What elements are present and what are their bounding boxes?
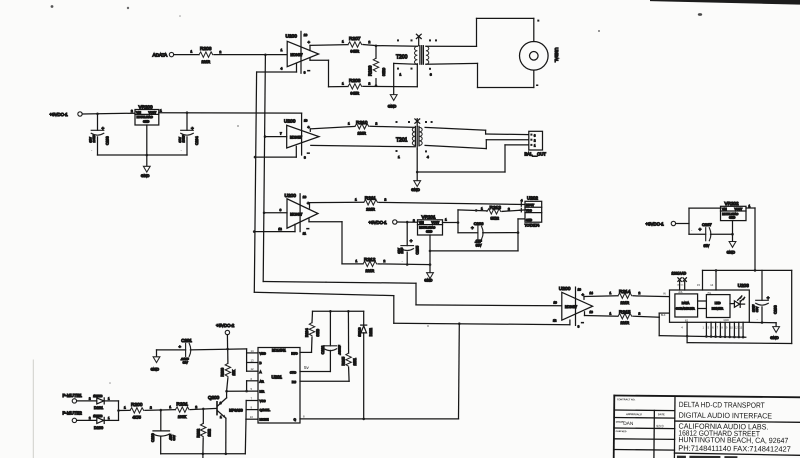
wire data bus to U200D input (wire A) [263, 282, 562, 306]
ic U201 MC14541 [258, 348, 300, 424]
wire scrambler to driver [698, 300, 707, 302]
svg-text:U200: U200 [285, 193, 297, 199]
svg-text:+: + [102, 126, 105, 131]
svg-text:P-MUTE1: P-MUTE1 [63, 393, 83, 398]
svg-text:GND: GND [727, 251, 736, 255]
ic DATA SCRAMBLER sub-block [675, 294, 698, 317]
wire VR201 gnd stub down [429, 235, 431, 273]
diode D202 1N4148 (vertical) [357, 311, 372, 419]
svg-text:R200: R200 [131, 402, 143, 408]
wire C206 gnd node to U202 gnd [517, 219, 519, 233]
wire U203 bottom pins [706, 322, 743, 337]
wire T200 secondary top to UNBAL [426, 18, 534, 46]
svg-text:DATA: DATA [682, 301, 690, 305]
svg-text:D200: D200 [94, 426, 103, 430]
svg-text:MC14541: MC14541 [272, 349, 286, 353]
svg-text:C207: C207 [702, 222, 712, 227]
resistor R201 100K [169, 401, 197, 418]
capacitor C205 [397, 222, 420, 264]
svg-text:R211: R211 [365, 196, 376, 202]
svg-text:T201: T201 [396, 138, 408, 144]
svg-text:VR200: VR200 [139, 104, 153, 109]
svg-text:GND: GND [526, 218, 532, 222]
wire U200D -out to R215 [585, 312, 619, 316]
svg-text:GND: GND [141, 174, 150, 178]
wire R215 to U203 [633, 313, 670, 317]
resistor R200 4K75 [124, 402, 152, 420]
svg-text:12: 12 [251, 367, 255, 371]
wire U201 Q riser [458, 324, 461, 419]
svg-text:PH:7148411140 FAX:7148412427: PH:7148411140 FAX:7148412427 [678, 444, 791, 454]
svg-text:92c3: 92c3 [656, 424, 664, 428]
transistor pair marks above U203 [677, 278, 687, 290]
svg-text:12: 12 [553, 319, 557, 323]
svg-text:GND: GND [424, 278, 432, 282]
wire +8VDC-1 to VR202 [676, 208, 721, 234]
wire R203/collector to MR pin [227, 390, 258, 392]
svg-text:RTC: RTC [291, 351, 298, 355]
wire U200A -out to R208 [310, 58, 348, 87]
svg-text:R205: R205 [342, 357, 346, 366]
wire U203 gnd branch [749, 322, 776, 326]
svg-text:A: A [260, 370, 262, 374]
wire T200 secondary bottom to UNBAL [426, 63, 534, 87]
svg-text:345R: 345R [351, 92, 360, 96]
wire U201 timing top bus [313, 310, 364, 312]
svg-text:C204: C204 [195, 136, 199, 145]
capacitor C200 [151, 410, 176, 454]
wire U200A enable to bus [257, 63, 297, 72]
svg-text:13: 13 [590, 310, 594, 314]
wire U203 top rail [703, 270, 792, 290]
capacitor C204 [178, 113, 199, 155]
ic U203 outer box [670, 283, 750, 322]
node ADATA input terminal [153, 52, 174, 57]
wire U200B +out to R210 [310, 126, 355, 131]
svg-text:+8VDC-1: +8VDC-1 [646, 221, 665, 226]
svg-text:B: B [260, 361, 262, 365]
svg-text:35V: 35V [476, 243, 483, 247]
svg-text:DELTA HD-CD TRANSPORT: DELTA HD-CD TRANSPORT [679, 400, 765, 410]
svg-text:221R: 221R [366, 207, 375, 211]
resistor R204 80K6 (vertical) [300, 311, 320, 352]
wire bus to U200B input [265, 136, 287, 138]
svg-text:R203: R203 [221, 368, 225, 377]
svg-text:VR202: VR202 [725, 201, 739, 206]
op-amp U200 (driver B, MC3487) [280, 113, 319, 160]
node +8VDC-1 terminal (top right) [646, 221, 676, 226]
regulator VR201 MC78L05AC [413, 215, 447, 235]
svg-text:16D1C: 16D1C [677, 285, 684, 287]
ic LED DRIVER sub-block [706, 292, 730, 322]
svg-text:DIGITAL AUDIO INTERFACE: DIGITAL AUDIO INTERFACE [679, 411, 773, 421]
capacitor C208 [752, 270, 778, 322]
resistor R215 221R [610, 310, 641, 326]
wire VR200 gnd stub [146, 125, 148, 155]
wire enable bus vertical (left) [254, 72, 256, 292]
svg-text:UNBAL: UNBAL [554, 48, 559, 63]
svg-text:10UF: 10UF [182, 135, 186, 143]
led indicator [730, 296, 745, 307]
svg-text:GND: GND [724, 319, 730, 322]
node C203 tap [96, 113, 99, 116]
svg-text:+: + [191, 126, 194, 131]
resistor R212 221R [356, 257, 386, 273]
resistor R203 15K (vertical) [221, 349, 236, 391]
svg-text:Q200: Q200 [208, 395, 220, 400]
op-amp U200 (driver C, MC3487) [278, 193, 318, 235]
op-amp U200 (driver D, MC3487) [553, 286, 593, 328]
svg-text:GND: GND [143, 119, 149, 123]
ground under U203 [770, 327, 779, 340]
svg-text:1N4148: 1N4148 [93, 394, 103, 398]
connector UNBAL RCA jack [520, 20, 560, 87]
regulator VR200 MC78L05AC [131, 104, 162, 125]
svg-text:GND: GND [151, 367, 160, 371]
node +8VDC-1 terminal (channel 3) [369, 220, 397, 225]
svg-text:+8VDC-1: +8VDC-1 [369, 220, 388, 225]
diode D201 1N4148 [89, 394, 110, 410]
ground under VR202 [727, 242, 736, 255]
wire 5V to R213 [458, 210, 487, 211]
svg-text:APPROVALS: APPROVALS [625, 412, 642, 416]
wire gnd rail under VR200 [98, 154, 188, 156]
scanner edge streak top right [650, 0, 800, 5]
svg-text:16: 16 [304, 119, 308, 123]
node +5VDC-2 terminal [216, 323, 235, 349]
svg-text:221R: 221R [621, 301, 630, 305]
wire VR200 VOUT 5V rail to op-amp B vcc [159, 112, 302, 114]
wire Q200 emitter down [225, 418, 227, 454]
title block main text [678, 400, 791, 454]
svg-text:13: 13 [251, 358, 255, 362]
svg-text:10UF: 10UF [92, 135, 96, 143]
svg-text:LED: LED [715, 301, 722, 305]
wire R215 node to gnd bus [658, 317, 660, 335]
svg-text:15K: 15K [232, 369, 236, 376]
svg-text:MC3487: MC3487 [290, 135, 302, 139]
svg-text:U200: U200 [559, 286, 571, 292]
svg-text:DAN: DAN [623, 421, 634, 427]
wire VR201 vout node [443, 222, 459, 224]
wire R207 to T200 [363, 45, 376, 46]
wire ADATA to R206 [174, 54, 199, 56]
svg-text:10: 10 [554, 300, 558, 304]
cap polarity minus marks [91, 148, 759, 322]
svg-text:.033UF: .033UF [338, 345, 342, 355]
resistor R207 345R [342, 36, 371, 54]
svg-text:R214: R214 [619, 289, 631, 295]
capacitor C201 (inline) with gnd [157, 338, 247, 364]
svg-text:INPUT: INPUT [526, 203, 534, 207]
svg-text:+: + [471, 226, 474, 231]
svg-text:U200: U200 [286, 34, 298, 40]
ground under T200 [388, 95, 397, 109]
op-amp U200 (driver A, MC3487) [281, 31, 319, 74]
svg-text:VR201: VR201 [422, 215, 436, 220]
svg-text:5v: 5v [304, 365, 310, 370]
svg-text:SCRAMBLER: SCRAMBLER [676, 307, 696, 311]
svg-text:1UF: 1UF [400, 248, 404, 254]
svg-text:MC3487: MC3487 [565, 305, 577, 309]
svg-text:35V: 35V [755, 307, 759, 312]
svg-text:BLK: BLK [661, 314, 666, 317]
ground under VR200 [141, 155, 150, 178]
wire U201 vdd/b/a bracket [247, 349, 258, 371]
svg-text:+8VDC-1: +8VDC-1 [50, 112, 69, 117]
svg-text:+: + [767, 296, 770, 301]
resistor R205 22K1 (vertical) [300, 311, 357, 381]
capacitor C203 [89, 114, 110, 155]
svg-text:14: 14 [251, 349, 255, 353]
svg-text:IN: IN [663, 292, 666, 296]
node +8VDC-1 terminal [50, 112, 83, 117]
svg-text:MC3487: MC3487 [291, 53, 303, 57]
svg-text:ADATA: ADATA [153, 53, 169, 58]
svg-text:C208: C208 [773, 305, 777, 314]
node wire B / Q riser junction [458, 322, 461, 325]
wire R200 to R201 [145, 409, 175, 412]
wire U200C -out to R212 [309, 219, 363, 264]
wire enable bus to U200D (wire B) [254, 292, 570, 324]
svg-text:16: 16 [304, 33, 308, 37]
svg-text:P-MUTE2: P-MUTE2 [63, 410, 83, 415]
wire U200A +out to R207 [310, 45, 348, 51]
ground under T201 [411, 172, 420, 192]
ground under VR201 [424, 273, 433, 283]
svg-text:R207: R207 [349, 36, 361, 42]
svg-text:R215: R215 [619, 310, 631, 316]
title block bottom partial row [677, 456, 738, 458]
svg-text:GND: GND [411, 188, 420, 192]
wire U203 I/O stub [686, 322, 688, 342]
svg-text:CTC: CTC [290, 370, 297, 374]
resistor R206 221R [191, 46, 222, 64]
wire R211 to U202 input [379, 202, 525, 204]
resistor R210 110R [348, 120, 378, 136]
wire P-MUTE1 to D201 [77, 400, 97, 402]
svg-text:221R: 221R [621, 321, 630, 325]
svg-text:C203: C203 [106, 136, 110, 145]
svg-text:R202: R202 [197, 429, 201, 438]
svg-text:8K22: 8K22 [491, 217, 499, 221]
svg-text:DATE: DATE [658, 412, 665, 416]
svg-text:VSS: VSS [260, 399, 266, 403]
optical transmitter U202 TOTX174 [521, 196, 542, 228]
wire gnd rail VR201 to U202 [430, 250, 518, 252]
node R207/R209 junction [375, 45, 378, 48]
diode D200 1N4148 [89, 414, 110, 430]
svg-text:90R9: 90R9 [382, 68, 386, 76]
svg-text:R209: R209 [368, 65, 373, 76]
svg-text:16: 16 [303, 195, 307, 199]
resistor R211 221R [355, 196, 387, 212]
wire T201 secondary top to BAL_OUT pin3 [425, 127, 529, 134]
wire U200B -out to T201 [311, 145, 415, 146]
svg-text:GND: GND [426, 229, 432, 233]
wire T201 center tap to BAL_OUT pin1 and GND [417, 145, 529, 172]
svg-text:35V: 35V [704, 244, 711, 248]
transformer T201 [396, 119, 433, 159]
svg-text:4K75: 4K75 [133, 416, 141, 420]
svg-text:C205: C205 [415, 246, 419, 255]
svg-text:R213: R213 [490, 205, 502, 211]
connector BAL_OUT [525, 131, 547, 156]
resistor R214 221R [610, 289, 641, 305]
node junction ADATA bus tap [264, 54, 267, 57]
transistor Q200 MPSA06 [208, 395, 243, 419]
title block frame [614, 396, 800, 458]
svg-text:221R: 221R [366, 269, 375, 273]
wire P-MUTE2 to D200 [77, 419, 97, 421]
wire U200B enable to bus [255, 146, 296, 157]
svg-text:14: 14 [590, 291, 594, 295]
svg-text:MODE: MODE [260, 418, 269, 422]
wire U203 bottom pin bus [659, 336, 746, 338]
svg-text:~: ~ [262, 351, 265, 356]
svg-text:C202: C202 [321, 346, 325, 355]
svg-text:+: + [410, 239, 413, 244]
node P-MUTE2 terminal [63, 410, 83, 422]
svg-text:R204: R204 [305, 328, 309, 337]
svg-text:R201: R201 [176, 401, 188, 407]
capacitor C206 (inline) [458, 221, 518, 247]
svg-text:12: 12 [278, 227, 282, 231]
svg-text:U203: U203 [738, 283, 749, 288]
svg-text:MC3487: MC3487 [290, 212, 302, 216]
svg-text:R212: R212 [364, 257, 376, 263]
wire Q200 collector up [226, 391, 228, 398]
wire R206 to U200 pin1 [214, 54, 287, 56]
svg-text:GND: GND [729, 216, 735, 220]
wire VR202 vout to U203 rail [746, 208, 755, 270]
wire U200C +out to R211 [310, 202, 364, 208]
regulator VR202 MC78L05AC [721, 201, 751, 220]
ink blob [698, 13, 702, 16]
svg-text:C201: C201 [181, 338, 192, 343]
svg-text:1N4148: 1N4148 [93, 414, 103, 418]
wire U200C enable to bus [254, 224, 295, 231]
svg-text:U201: U201 [272, 375, 283, 380]
svg-text:63V: 63V [172, 435, 176, 440]
svg-text:C200: C200 [151, 433, 155, 442]
svg-text:1261AAD: 1261AAD [672, 272, 687, 276]
svg-text:CONTRACT NO.: CONTRACT NO. [617, 398, 636, 401]
capacitor C207 (inline) [689, 222, 733, 248]
ground at C201 [151, 350, 160, 372]
wire T201 secondary bottom to BAL_OUT pin2 [425, 140, 529, 149]
svg-text:22K1: 22K1 [353, 358, 357, 366]
wire bus to U200C input [264, 212, 287, 214]
node P-MUTE1 terminal [63, 393, 83, 403]
paper fold line bottom left [32, 360, 34, 458]
wire R208 to T200 bottom [363, 64, 417, 87]
wire +8VDC-1 to VR200 [82, 112, 135, 115]
svg-text:10: 10 [250, 415, 254, 419]
transformer T200 [396, 34, 437, 76]
svg-text:110R: 110R [358, 132, 367, 136]
svg-text:63V: 63V [183, 360, 188, 364]
wire +8VDC-1 to VR201 [397, 221, 418, 223]
svg-text:GND: GND [388, 104, 397, 108]
svg-text:DRIVER: DRIVER [712, 306, 724, 310]
wire U201 ar/mr bracket [247, 377, 258, 391]
wire bottom ground rail [161, 419, 246, 454]
resistor R213 8K22 [481, 205, 510, 221]
svg-text:T200: T200 [396, 54, 408, 60]
wire diode cathodes join [104, 401, 118, 421]
svg-text:100K: 100K [178, 415, 187, 419]
svg-text:+: + [699, 227, 702, 232]
resistor R209 90R9 (vertical) [368, 46, 387, 86]
wire U200D +out to R214 [584, 296, 618, 300]
wire R201 to Q200 base [190, 408, 216, 409]
svg-text:U200: U200 [284, 119, 296, 125]
svg-text:R210: R210 [356, 120, 368, 126]
wire R212 to gnd post [378, 263, 430, 266]
resistor R202 18K2 (vertical) [197, 409, 212, 454]
wire U203 right loop [687, 270, 792, 343]
svg-text:80K6: 80K6 [316, 329, 320, 337]
svg-text:Q/1SEL: Q/1SEL [260, 408, 271, 412]
svg-text:D202: D202 [369, 328, 373, 336]
wire T200 primary bottom to GND [394, 63, 418, 94]
svg-text:GND: GND [770, 336, 779, 340]
svg-text:70L: 70L [707, 292, 712, 295]
svg-text:C206: C206 [474, 221, 484, 226]
svg-text:11: 11 [303, 231, 306, 235]
wire R214 to U203 [633, 295, 670, 298]
node VR202 5V feed [754, 269, 757, 272]
wire VR202 gnd stub [732, 221, 734, 242]
svg-text:16: 16 [578, 287, 582, 291]
wire U201 vss/qsel/mode bracket to gnd rail [246, 397, 258, 420]
svg-text:RS: RS [292, 380, 296, 384]
resistor R208 345R [342, 78, 371, 96]
wire to R200 [119, 409, 131, 411]
svg-text:MPSA06: MPSA06 [229, 409, 242, 413]
svg-text:CHECKED: CHECKED [616, 431, 627, 433]
svg-text:BAL__OUT: BAL__OUT [525, 152, 547, 157]
wire U201 Q output rail [300, 418, 459, 420]
svg-text:345R: 345R [351, 50, 360, 54]
wire R213 to U202 vcc [502, 210, 520, 211]
wire data bus vertical (right) [263, 55, 265, 282]
svg-text:D201: D201 [94, 406, 103, 410]
svg-text:TOTX174: TOTX174 [525, 224, 540, 228]
svg-text:221R: 221R [202, 60, 211, 64]
svg-text:18K2: 18K2 [208, 429, 212, 437]
capacitor C202 .033UF [300, 311, 342, 371]
svg-text:+5VDC-2: +5VDC-2 [216, 323, 235, 328]
title block small labels [616, 398, 665, 433]
svg-text:R208: R208 [349, 78, 361, 84]
node R208/R209 junction [375, 84, 378, 87]
svg-text:R206: R206 [200, 46, 212, 52]
svg-text:U202: U202 [527, 196, 538, 201]
wire R210 to T201 [370, 126, 415, 127]
